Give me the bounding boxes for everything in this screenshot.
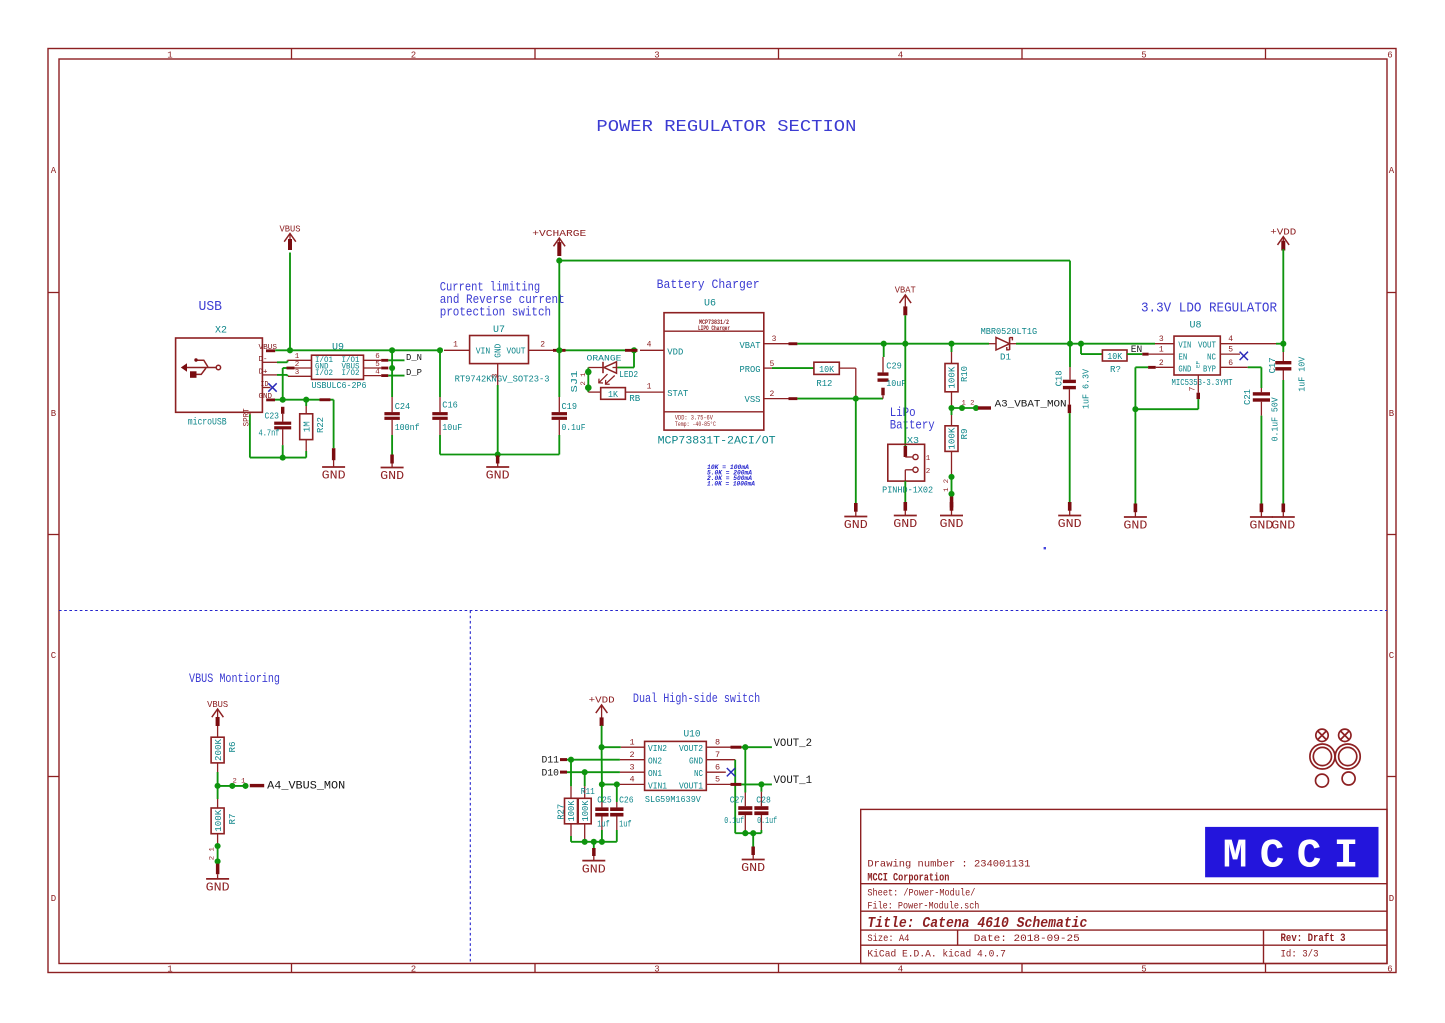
wire R? to U8 EN: [1127, 353, 1142, 355]
wire VBAT pin to rail: [797, 343, 883, 345]
junction rail R11: [582, 839, 588, 845]
wire U9 pin6 to D_N: [388, 359, 404, 361]
svg-text:PROG: PROG: [740, 364, 761, 375]
svg-text:GND: GND: [741, 862, 765, 875]
svg-text:1K: 1K: [608, 390, 619, 400]
svg-text:C18: C18: [1054, 370, 1065, 386]
resistor R7 100K: [217, 786, 219, 799]
ground symbol under U6: [854, 503, 858, 512]
svg-text:2: 2: [295, 361, 300, 369]
svg-text:2 1: 2 1: [580, 372, 587, 385]
svg-text:USB: USB: [199, 300, 223, 315]
svg-text:3: 3: [295, 369, 300, 377]
svg-text:1uf: 1uf: [619, 819, 632, 830]
wire U9 pin5 riser (VBUS to C24): [391, 350, 393, 397]
junction U9 pin5: [389, 365, 395, 371]
junction rail C25: [599, 839, 605, 845]
svg-text:4: 4: [647, 340, 652, 349]
svg-text:MCCI Corporation: MCCI Corporation: [867, 873, 949, 885]
ground symbol VBUS monitor: [217, 874, 219, 879]
net tie A3_VBAT_MON: [948, 405, 954, 411]
svg-text:MBR0520LT1G: MBR0520LT1G: [981, 326, 1038, 337]
junction D10: [582, 769, 588, 775]
svg-text:ON1: ON1: [648, 769, 662, 779]
wire +VCHARGE down to U7 pin2: [558, 261, 560, 351]
U10 pin 4: [620, 783, 645, 785]
svg-text:100nf: 100nf: [395, 422, 420, 433]
wire U10 gnd down: [734, 760, 736, 834]
svg-text:GND: GND: [844, 519, 868, 532]
wire C23 to bottom rail: [282, 445, 284, 458]
svg-text:C26: C26: [619, 795, 634, 806]
svg-text:2: 2: [540, 340, 545, 349]
wire +VDD stem to pin1: [601, 726, 603, 748]
svg-text:D_P: D_P: [406, 367, 422, 378]
capacitor C26 1uf: [616, 784, 618, 802]
svg-text:4: 4: [898, 965, 903, 975]
wire +VDD stem: [1282, 249, 1284, 344]
svg-text:microUSB: microUSB: [188, 417, 227, 429]
wire C24 to GND B: [391, 435, 393, 455]
svg-text:VBAT: VBAT: [740, 340, 761, 351]
svg-text:MIC5353-3.3YMT: MIC5353-3.3YMT: [1172, 377, 1233, 388]
title block: [861, 809, 1387, 963]
wire D+ to U9 pin3: [277, 374, 288, 376]
wire D1 to VDD node: [1016, 343, 1155, 345]
wire U8 gnd to GND symbol: [1134, 409, 1136, 503]
svg-text:R7: R7: [227, 814, 238, 825]
svg-text:POWER REGULATOR SECTION: POWER REGULATOR SECTION: [596, 117, 856, 136]
U6 pin 2 VSS: [764, 398, 789, 400]
svg-text:GND: GND: [940, 518, 964, 531]
svg-text:4: 4: [898, 51, 903, 61]
svg-text:Battery: Battery: [890, 418, 935, 433]
capacitor C21 0.1uF 50V: [1248, 366, 1262, 368]
U7 pin 1: [444, 349, 470, 351]
svg-text:GND: GND: [380, 470, 404, 483]
svg-text:R11: R11: [581, 786, 595, 797]
svg-text:C29: C29: [886, 361, 902, 372]
svg-text:VIN: VIN: [1178, 340, 1191, 350]
capacitor C19 0.1uF: [558, 350, 560, 397]
wire LED branch down: [633, 350, 635, 367]
svg-text:Sheet: /Power-Module/: Sheet: /Power-Module/: [867, 888, 975, 900]
svg-text:I/O2: I/O2: [342, 370, 360, 378]
svg-text:1: 1: [453, 340, 458, 349]
svg-text:C21: C21: [1242, 389, 1253, 405]
wire VBAT rail to D1: [884, 343, 989, 345]
svg-text:0.1uF 50V: 0.1uF 50V: [1269, 397, 1280, 441]
svg-text:VBUS Montioring: VBUS Montioring: [189, 671, 280, 686]
IC U8 MIC5353 body: [1174, 336, 1220, 375]
svg-text:2: 2: [926, 468, 931, 476]
resistor R12 10K: [814, 362, 839, 374]
wire LED branch left: [617, 367, 634, 369]
svg-text:100K: 100K: [948, 366, 958, 389]
svg-text:5: 5: [1141, 51, 1146, 61]
junction +VDD pin1: [599, 744, 605, 750]
svg-text:Size: A4: Size: A4: [867, 933, 909, 945]
svg-text:VOUT: VOUT: [1198, 340, 1216, 350]
svg-text:X2: X2: [215, 326, 227, 337]
capacitor C29 10uF: [883, 344, 885, 357]
ground symbol under X3: [904, 502, 908, 511]
svg-text:10uF: 10uF: [886, 378, 906, 389]
svg-text:10K: 10K: [819, 365, 835, 375]
ground symbol under C21: [1260, 504, 1264, 513]
U9 pin 2: [295, 367, 312, 369]
svg-text:1uf: 1uf: [597, 819, 610, 830]
svg-text:100K: 100K: [567, 800, 577, 822]
svg-text:EN: EN: [1131, 345, 1143, 356]
ground symbol C (U7): [496, 456, 500, 464]
capacitor C23: [281, 407, 284, 414]
svg-text:3.3V LDO REGULATOR: 3.3V LDO REGULATOR: [1141, 302, 1277, 317]
net tie A4_VBUS_MON: [218, 785, 246, 787]
svg-text:C27: C27: [730, 795, 745, 806]
svg-text:R22: R22: [315, 417, 326, 433]
svg-text:100K: 100K: [214, 809, 224, 832]
wire VBUS rail X2 to U7: [275, 349, 440, 351]
svg-text:1: 1: [167, 965, 172, 975]
wire RB to U6 STAT: [625, 391, 664, 393]
wire EP to gnd junction: [1135, 408, 1198, 410]
U8 pin 7 EP pad: [1197, 375, 1199, 393]
svg-text:GND: GND: [486, 470, 510, 483]
ground symbol A (X2 area): [332, 448, 336, 460]
svg-text:1: 1: [295, 353, 300, 361]
svg-text:B: B: [51, 409, 57, 419]
net tie R7 to GND: [215, 843, 221, 849]
svg-text:A4_VBUS_MON: A4_VBUS_MON: [267, 781, 345, 793]
svg-text:Drawing number : 234001131: Drawing number : 234001131: [867, 859, 1030, 871]
svg-text:D11: D11: [542, 756, 560, 767]
capacitor C28 0.1uf: [760, 784, 762, 791]
svg-text:3: 3: [654, 965, 659, 975]
svg-text:VOUT2: VOUT2: [679, 744, 703, 754]
junction VOUT2: [742, 744, 748, 750]
svg-text:0.1uf: 0.1uf: [757, 815, 777, 826]
svg-text:1 2: 1 2: [943, 479, 950, 492]
USB icon inside X2: [181, 358, 221, 378]
capacitor C25 1uf: [601, 784, 603, 802]
wire +VCHARGE to VBAT rail (horizontal): [559, 260, 1070, 262]
svg-text:C28: C28: [756, 795, 771, 806]
svg-text:6: 6: [1387, 965, 1392, 975]
svg-text:R6: R6: [227, 741, 238, 752]
wire switch right gnd rail: [735, 832, 761, 834]
U8 pin 2 GND: [1156, 366, 1174, 368]
resistor R22 1M: [300, 414, 313, 440]
resistor R9 100K: [951, 408, 953, 415]
svg-text:4: 4: [375, 369, 380, 377]
junction C29 top: [881, 341, 887, 347]
wire U8 gnd net: [1135, 366, 1148, 368]
solder jumper SJ1: [585, 369, 592, 376]
svg-text:4: 4: [1228, 335, 1233, 344]
svg-text:C25: C25: [597, 795, 612, 806]
svg-text:6: 6: [1228, 359, 1233, 368]
U6 pin 5 PROG: [764, 367, 772, 369]
svg-text:7: 7: [715, 750, 720, 760]
svg-text:1: 1: [926, 455, 931, 463]
U8 pin 1 EN: [1149, 353, 1174, 355]
capacitor C16 10uF: [439, 350, 441, 397]
junction VBAT symbol: [902, 341, 908, 347]
U9 pin 1: [288, 359, 312, 361]
wire C17 to GND: [1282, 380, 1284, 504]
svg-text:C16: C16: [442, 399, 458, 410]
svg-text:B: B: [1389, 409, 1395, 419]
capacitor C18 1uF 6.3V: [1069, 344, 1071, 367]
svg-text:X3: X3: [907, 435, 919, 446]
svg-text:EN: EN: [1178, 352, 1187, 362]
net tie R9 to GND: [948, 474, 954, 480]
junction D11: [568, 757, 574, 763]
wire U7 gnd down: [497, 385, 499, 455]
junction rail gnd: [591, 839, 597, 845]
svg-text:VDD: VDD: [667, 346, 683, 357]
U10 pin 1: [621, 746, 645, 748]
svg-text:3: 3: [772, 335, 777, 344]
svg-text:Rev: Draft 3: Rev: Draft 3: [1281, 933, 1346, 945]
wire VIN1 to +VDD branch: [602, 783, 620, 785]
wire ON1 to D10: [567, 771, 620, 773]
junction +VCHARGE: [556, 258, 562, 264]
resistor R11 100K: [584, 772, 586, 786]
wire +VDD down to VIN1: [601, 747, 603, 784]
svg-text:BYP: BYP: [1203, 364, 1216, 374]
connector X2 microUSB body: [176, 338, 263, 412]
svg-text:Date: 2018-09-25: Date: 2018-09-25: [974, 933, 1080, 945]
svg-text:RT9742KNGV_SOT23-3: RT9742KNGV_SOT23-3: [455, 373, 550, 384]
svg-text:MCP73831T-2ACI/OT: MCP73831T-2ACI/OT: [658, 436, 776, 448]
svg-text:U6: U6: [704, 299, 716, 310]
svg-text:2: 2: [769, 390, 774, 399]
U10 pin 2: [620, 759, 645, 761]
wire VBUS to R6: [217, 726, 219, 737]
svg-text:10K: 10K: [1107, 352, 1123, 362]
ground symbol switch left: [593, 842, 595, 849]
wire VOUT2: [741, 746, 772, 748]
junction right rail gnd: [750, 830, 756, 836]
svg-text:0.1uF: 0.1uF: [562, 422, 586, 433]
wire R12 to VSS node: [839, 367, 856, 369]
svg-text:R12: R12: [816, 378, 832, 389]
svg-text:7: 7: [1188, 386, 1197, 391]
svg-text:1M: 1M: [302, 421, 313, 432]
svg-text:VSS: VSS: [745, 394, 761, 405]
svg-text:100K: 100K: [581, 800, 591, 822]
svg-text:1: 1: [647, 383, 652, 392]
capacitor C24 100nf: [391, 397, 393, 412]
svg-text:2: 2: [629, 750, 634, 760]
wire PROG to R12: [772, 367, 814, 369]
svg-text:GND: GND: [494, 344, 504, 358]
wire C18 to GND: [1069, 413, 1071, 502]
junction X2 GND: [280, 397, 286, 403]
wire D- to U9 pin1: [277, 361, 288, 363]
svg-text:D: D: [51, 894, 56, 904]
svg-text:GND: GND: [1058, 518, 1082, 531]
U9 pin 4: [364, 375, 382, 377]
resistor R10 100K: [951, 344, 953, 352]
wire X3 pin2 to GND: [904, 481, 906, 502]
junction U6 VDD node: [631, 347, 637, 353]
wire SJ1 pad1 to pad2: [587, 372, 589, 388]
U10 pin 6 NC no-connect: [706, 771, 726, 773]
MCCI logo: [1205, 827, 1378, 877]
U10 pin 3: [620, 771, 645, 773]
U6 pin 3 VBAT: [764, 343, 789, 345]
svg-text:USBULC6-2P6: USBULC6-2P6: [312, 380, 367, 391]
wire ON2 to D11: [567, 759, 620, 761]
svg-text:5: 5: [715, 775, 720, 785]
svg-text:VIN: VIN: [476, 346, 491, 357]
svg-text:GND: GND: [1249, 520, 1273, 533]
svg-text:ON2: ON2: [648, 756, 662, 766]
U7 pin 3 (GND): [497, 364, 499, 385]
svg-text:VIN1: VIN1: [648, 781, 667, 791]
U8 pin 4 VOUT: [1220, 343, 1276, 345]
LED LED2 orange: [613, 367, 618, 369]
junction R22 top: [303, 397, 309, 403]
connector X3 PINHD-1X02 body: [888, 444, 925, 481]
junction VIN1 branches: [599, 781, 605, 787]
svg-text:STAT: STAT: [667, 388, 688, 399]
svg-text:10uF: 10uF: [442, 422, 462, 433]
svg-text:1 2: 1 2: [962, 400, 975, 407]
svg-text:2 1: 2 1: [209, 847, 216, 860]
svg-text:GND: GND: [206, 882, 230, 895]
node D10 label: [560, 771, 567, 774]
svg-text:R27: R27: [556, 804, 567, 820]
junction VOUT1: [758, 781, 764, 787]
svg-text:A: A: [51, 166, 57, 176]
junction U7 pin1: [437, 347, 443, 353]
svg-text:File: Power-Module.sch: File: Power-Module.sch: [867, 900, 979, 912]
svg-text:GND: GND: [893, 518, 917, 531]
ground symbol B (C24): [390, 455, 394, 464]
svg-text:I/O2: I/O2: [315, 370, 333, 378]
U10 pin 8: [706, 746, 730, 748]
fiducial marks: [1310, 729, 1360, 787]
svg-text:3: 3: [629, 762, 634, 772]
svg-text:GND: GND: [1178, 364, 1191, 374]
junction U8 gnd: [1132, 406, 1138, 412]
junction VBUS divider: [215, 783, 221, 789]
svg-text:2 1: 2 1: [233, 778, 246, 785]
svg-text:5: 5: [1228, 346, 1233, 355]
wire VOUT1: [741, 783, 772, 785]
svg-text:PINHD-1X02: PINHD-1X02: [882, 484, 933, 495]
svg-text:3: 3: [654, 51, 659, 61]
svg-text:NC: NC: [1207, 352, 1216, 362]
svg-text:4.7nf: 4.7nf: [259, 428, 280, 439]
wire VSS to GND: [855, 399, 857, 503]
wire GND net to GND symbol A: [306, 399, 333, 401]
wire VBAT stem: [904, 315, 906, 343]
svg-text:GND: GND: [582, 863, 606, 876]
junction +VDD / C17: [1280, 341, 1286, 347]
svg-text:Temp: -40-85°C: Temp: -40-85°C: [675, 421, 716, 428]
svg-text:D: D: [1389, 894, 1394, 904]
svg-text:GND: GND: [1123, 520, 1147, 533]
svg-text:EP: EP: [1194, 361, 1201, 368]
wire U7 pin2 to U6 VDD: [566, 349, 635, 351]
node D11 label: [560, 758, 567, 761]
wire +VCHARGE drop to D1 cathode node: [1069, 261, 1071, 344]
wire U9 pin4 to D_P: [388, 375, 404, 377]
svg-text:U10: U10: [684, 729, 701, 740]
svg-text:U9: U9: [332, 343, 344, 354]
ground symbol under C17: [1282, 504, 1286, 513]
svg-text:4: 4: [629, 775, 634, 785]
svg-text:1: 1: [167, 51, 172, 61]
svg-text:ORANGE: ORANGE: [587, 353, 622, 363]
U9 pin 6: [364, 359, 382, 361]
svg-text:A: A: [1389, 166, 1395, 176]
svg-text:R?: R?: [1110, 364, 1121, 375]
svg-text:6: 6: [715, 762, 720, 772]
resistor R27 100K: [570, 760, 572, 787]
U9 pin 5: [364, 367, 382, 369]
svg-text:VOUT_1: VOUT_1: [774, 775, 813, 787]
svg-text:KiCad E.D.A. kicad 4.0.7: KiCad E.D.A. kicad 4.0.7: [867, 948, 1006, 960]
junction VBUS at X2: [287, 347, 293, 353]
U8 pin 6 BYP: [1220, 366, 1247, 368]
svg-text:A3_VBAT_MON: A3_VBAT_MON: [995, 399, 1067, 411]
wire X2 GND to junction: [275, 399, 306, 401]
junction U9 pin5 riser top: [389, 347, 395, 353]
U6 pin 4 VDD: [640, 349, 664, 351]
svg-text:3: 3: [1159, 335, 1164, 344]
svg-text:Battery Charger: Battery Charger: [657, 277, 760, 292]
svg-text:U7: U7: [493, 325, 505, 336]
svg-text:R10: R10: [959, 366, 970, 382]
ground symbol switch right: [752, 833, 754, 847]
junction U7 pin2 / +VCHARGE: [556, 347, 562, 353]
svg-text:Id: 3/3: Id: 3/3: [1281, 948, 1319, 960]
svg-text:D1: D1: [1000, 352, 1011, 363]
wire switch gnd rail: [571, 841, 617, 843]
svg-text:2: 2: [411, 51, 416, 61]
wire SJ1 pad2 to RB: [587, 388, 589, 392]
svg-text:8: 8: [715, 737, 720, 747]
svg-text:C: C: [1389, 651, 1395, 661]
svg-text:1: 1: [1159, 346, 1164, 355]
ground symbol under C18: [1068, 502, 1072, 511]
junction U7 gnd rail: [495, 451, 501, 457]
capacitor C27 0.1uf: [744, 747, 746, 792]
wire VBAT down to X3: [904, 344, 906, 446]
svg-text:D_N: D_N: [406, 352, 422, 363]
svg-text:6: 6: [375, 353, 380, 361]
svg-text:2: 2: [411, 965, 416, 975]
wire bottom rail (X2 shield): [250, 457, 306, 459]
svg-text:NC: NC: [694, 769, 703, 779]
junction EN branch: [1078, 341, 1084, 347]
U10 pin 5: [706, 783, 730, 785]
svg-text:0.1uf: 0.1uf: [724, 815, 744, 826]
svg-text:5: 5: [1141, 965, 1146, 975]
IC U10 SLG59M1639V body: [645, 741, 707, 790]
svg-text:VOUT1: VOUT1: [679, 781, 703, 791]
svg-text:1uF 10V: 1uF 10V: [1296, 357, 1307, 392]
svg-text:2: 2: [1159, 359, 1164, 368]
svg-text:R9: R9: [959, 428, 970, 439]
svg-text:C: C: [51, 651, 57, 661]
